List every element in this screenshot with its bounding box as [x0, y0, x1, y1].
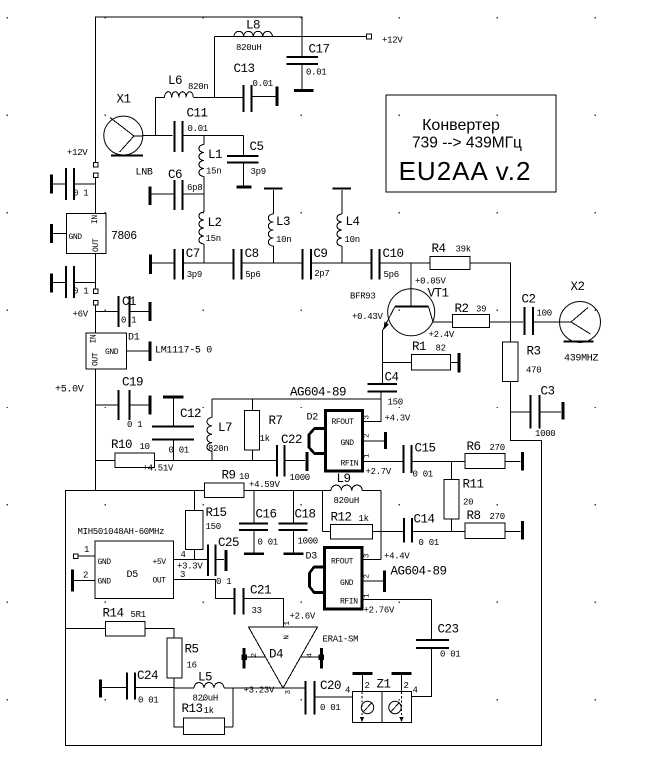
ground D4 pin2 [243, 648, 246, 669]
resistor R9 [205, 483, 245, 498]
svg-text:0.01: 0.01 [188, 124, 208, 134]
svg-text:2: 2 [83, 571, 88, 581]
svg-text:0.01: 0.01 [306, 68, 326, 78]
capacitor C4 [368, 384, 398, 391]
connector X2 [560, 302, 601, 343]
ground C12 top [163, 396, 184, 399]
svg-text:82: 82 [436, 344, 446, 354]
svg-text:1000: 1000 [535, 429, 555, 439]
svg-text:R15: R15 [206, 506, 227, 520]
svg-text:150: 150 [388, 398, 403, 408]
svg-text:+2.7V: +2.7V [366, 467, 392, 477]
svg-text:10n: 10n [345, 235, 360, 245]
svg-text:2: 2 [364, 574, 372, 578]
svg-text:C20: C20 [320, 679, 341, 693]
ground C3 [562, 402, 565, 420]
svg-text:3p9: 3p9 [187, 270, 202, 280]
svg-text:R4: R4 [432, 242, 446, 256]
svg-text:C16: C16 [256, 508, 277, 522]
svg-text:OUT: OUT [92, 238, 101, 252]
svg-text:270: 270 [490, 512, 505, 522]
svg-text:0 01: 0 01 [320, 703, 340, 713]
svg-text:IN: IN [91, 215, 100, 224]
svg-text:7806: 7806 [111, 230, 137, 243]
title box [386, 95, 556, 192]
inductor L6 [156, 96, 165, 98]
svg-text:+12V: +12V [67, 148, 88, 158]
svg-text:GND: GND [98, 578, 112, 587]
svg-text:+0.05V: +0.05V [415, 277, 447, 287]
ground C22 [306, 452, 309, 471]
resistor R13 [174, 688, 184, 727]
capacitor C7 [175, 249, 183, 280]
svg-text:C11: C11 [187, 107, 208, 121]
svg-text:D5: D5 [127, 570, 139, 581]
svg-text:D2: D2 [307, 413, 319, 424]
capacitor C20 [306, 681, 315, 715]
ground C25 [225, 550, 228, 571]
wire R4 to collector node [470, 263, 511, 322]
svg-text:C15: C15 [415, 442, 436, 456]
node pad pair on +12V rail [93, 163, 98, 168]
resistor R11 [451, 462, 453, 480]
svg-text:5p6: 5p6 [245, 270, 260, 280]
svg-text:150: 150 [206, 522, 221, 532]
capacitor C10 [371, 249, 379, 280]
svg-text:+6V: +6V [73, 310, 89, 320]
inductor L9 [323, 490, 332, 492]
svg-text:4: 4 [181, 550, 186, 560]
svg-text:+4.3V: +4.3V [385, 414, 411, 424]
svg-text:5p6: 5p6 [384, 270, 399, 280]
svg-text:C13: C13 [234, 62, 255, 76]
svg-text:RFIN: RFIN [340, 598, 358, 607]
capacitor C16 [253, 491, 255, 523]
svg-text:R14: R14 [103, 607, 124, 621]
capacitor C22 [277, 445, 285, 477]
svg-text:N: N [284, 635, 292, 639]
svg-text:R3: R3 [527, 345, 541, 359]
wire C7-C8 [184, 262, 233, 264]
svg-text:0.01: 0.01 [253, 79, 273, 89]
wire C8-C9 [243, 262, 303, 264]
capacitor C12 [173, 399, 175, 426]
ground C5 [237, 186, 252, 189]
wire D3 pin1 to C23 [362, 599, 432, 601]
ground C13 [276, 87, 279, 107]
ground Z1 pin2 right [392, 672, 412, 675]
svg-text:C7: C7 [186, 247, 200, 261]
capacitor C11 [175, 121, 183, 152]
ground output cap [50, 274, 53, 293]
svg-text:R7: R7 [269, 414, 283, 428]
capacitor C15 [404, 445, 412, 473]
inductor L5 [174, 687, 194, 689]
svg-text:270: 270 [490, 443, 505, 453]
svg-text:4: 4 [413, 686, 418, 696]
svg-text:+4.51V: +4.51V [143, 464, 175, 474]
svg-text:D4: D4 [269, 648, 283, 662]
svg-text:0 01: 0 01 [258, 538, 278, 548]
ground C19 [149, 396, 152, 415]
inductor L3 [268, 214, 273, 246]
resistor R8 [465, 523, 505, 539]
svg-text:C24: C24 [137, 669, 158, 683]
inductor L4 [337, 214, 342, 246]
capacitor C2 [525, 307, 534, 335]
svg-text:GND: GND [98, 558, 112, 567]
svg-text:GND: GND [340, 579, 354, 588]
svg-text:820n: 820n [208, 444, 228, 454]
svg-text:D1: D1 [128, 333, 140, 344]
svg-text:L3: L3 [276, 215, 290, 229]
capacitor C13 [244, 85, 252, 112]
svg-text:3: 3 [180, 570, 185, 580]
svg-text:+3.23V: +3.23V [244, 686, 276, 696]
ground C17 [294, 89, 314, 92]
ground input cap [50, 175, 53, 194]
svg-text:C17: C17 [309, 43, 330, 57]
wire D5 +5V pin to C25 [174, 559, 208, 561]
capacitor C input 0.1 [66, 168, 74, 200]
oscillator D5 MIH501048AH [95, 541, 174, 599]
regulator D1 LM1117 [86, 333, 127, 369]
svg-text:L9: L9 [337, 472, 351, 486]
wire L8 left drop to L6 rail [214, 37, 216, 98]
svg-text:C25: C25 [218, 536, 239, 550]
svg-text:OUT: OUT [92, 352, 101, 366]
inductor L1 [203, 136, 205, 145]
ground 7806 [50, 224, 53, 243]
ground L3 top [264, 187, 283, 189]
svg-text:2p7: 2p7 [314, 269, 329, 279]
svg-text:R10: R10 [111, 438, 132, 452]
svg-text:C6: C6 [168, 168, 182, 182]
svg-text:L6: L6 [168, 74, 182, 88]
svg-text:Конвертер: Конвертер [422, 117, 500, 134]
svg-text:GND: GND [341, 439, 355, 448]
svg-text:C10: C10 [383, 247, 404, 261]
svg-text:D3: D3 [306, 552, 318, 563]
svg-text:X2: X2 [571, 280, 585, 294]
svg-text:+4.59V: +4.59V [249, 480, 281, 490]
wire R2 to C2 [490, 321, 524, 323]
svg-text:0 1: 0 1 [216, 577, 231, 587]
svg-text:BFR93: BFR93 [350, 292, 376, 302]
svg-text:C21: C21 [250, 584, 271, 598]
svg-text:16: 16 [187, 661, 197, 671]
svg-text:439MHZ: 439MHZ [564, 354, 599, 365]
ground D3 pin2 [362, 580, 383, 582]
capacitor C19 [96, 404, 118, 406]
svg-text:VT1: VT1 [428, 287, 449, 301]
ground C7 left [149, 255, 152, 275]
resistor R2 [453, 315, 490, 328]
svg-text:820n: 820n [188, 82, 208, 92]
svg-text:L2: L2 [208, 216, 222, 230]
svg-text:20: 20 [463, 498, 473, 508]
svg-text:L7: L7 [218, 421, 232, 435]
svg-text:RFOUT: RFOUT [331, 558, 354, 567]
svg-text:C18: C18 [295, 508, 316, 522]
svg-text:10: 10 [239, 472, 249, 482]
ground L4 top [333, 187, 352, 189]
capacitor C6 [149, 187, 152, 206]
svg-text:C3: C3 [541, 385, 555, 399]
svg-text:L5: L5 [198, 671, 212, 685]
svg-text:470: 470 [526, 366, 541, 376]
svg-text:2: 2 [404, 681, 409, 691]
svg-text:+5V: +5V [153, 558, 167, 567]
ground D2 pin2 [363, 440, 385, 442]
svg-text:6p8: 6p8 [187, 183, 202, 193]
wire R10 net [96, 460, 116, 462]
svg-text:C19: C19 [122, 376, 143, 390]
ground C24 [99, 680, 102, 698]
resistor R12 [323, 531, 331, 533]
inductor L2 [199, 212, 204, 244]
svg-text:0 01: 0 01 [440, 650, 460, 660]
svg-text:C8: C8 [245, 247, 259, 261]
svg-text:1k: 1k [359, 514, 369, 524]
capacitor C14 [404, 518, 412, 543]
svg-text:+0.43V: +0.43V [352, 312, 384, 322]
wire RFOUT riser [380, 491, 382, 560]
svg-text:1k: 1k [260, 434, 270, 444]
svg-text:C9: C9 [313, 247, 327, 261]
svg-text:L8: L8 [246, 19, 260, 33]
resistor R5 [167, 638, 182, 678]
svg-text:15n: 15n [206, 234, 221, 244]
svg-text:R11: R11 [463, 478, 484, 492]
svg-text:R13: R13 [182, 702, 203, 716]
svg-text:C1: C1 [122, 295, 136, 309]
svg-text:739 --> 439МГц: 739 --> 439МГц [412, 135, 522, 152]
svg-text:R2: R2 [455, 302, 469, 316]
svg-text:+4.4V: +4.4V [384, 552, 410, 562]
svg-text:LM1117-5 0: LM1117-5 0 [155, 346, 212, 357]
svg-text:X1: X1 [117, 93, 131, 107]
svg-text:RFOUT: RFOUT [332, 418, 355, 427]
svg-text:100: 100 [537, 309, 552, 319]
svg-text:10: 10 [140, 442, 150, 452]
svg-text:C4: C4 [385, 371, 399, 385]
svg-text:0 1: 0 1 [121, 316, 136, 326]
svg-text:0 1: 0 1 [73, 287, 88, 297]
svg-text:+2.4V: +2.4V [429, 330, 455, 340]
svg-text:39k: 39k [456, 245, 471, 255]
wire L9 R12 left node [322, 491, 324, 532]
svg-text:LNB: LNB [136, 168, 153, 179]
wire D2 pin3 to C4 [363, 399, 382, 422]
svg-text:AG604-89: AG604-89 [391, 565, 447, 579]
svg-text:10n: 10n [276, 235, 291, 245]
capacitor C21 [235, 588, 244, 615]
svg-text:39: 39 [476, 305, 486, 315]
svg-text:4: 4 [345, 686, 350, 696]
ground R8 [521, 521, 524, 540]
svg-text:GND: GND [105, 348, 119, 357]
wire collector to R2 [433, 321, 453, 323]
resistor R15 [194, 491, 196, 511]
svg-text:2: 2 [365, 681, 370, 691]
transistor VT1 [410, 263, 412, 307]
svg-text:0 1: 0 1 [73, 189, 88, 199]
capacitor C23 [431, 600, 433, 640]
svg-text:L4: L4 [346, 215, 360, 229]
svg-text:0 01: 0 01 [138, 696, 158, 706]
capacitor C8 [234, 249, 242, 280]
svg-text:1: 1 [84, 545, 89, 555]
svg-text:0 01: 0 01 [413, 470, 433, 480]
capacitor C18 [293, 491, 295, 523]
svg-text:2: 2 [364, 434, 372, 438]
svg-text:33: 33 [252, 606, 262, 616]
svg-text:Z1: Z1 [377, 678, 391, 692]
ground R1 [458, 353, 461, 373]
wire D2 pin1 to C15 [363, 461, 403, 463]
svg-text:+2.6V: +2.6V [290, 612, 316, 622]
wire +5V rail down [95, 369, 97, 491]
node pad pair +6V [93, 289, 98, 294]
wire C2 to X2 [534, 321, 560, 323]
svg-text:0 01: 0 01 [419, 538, 439, 548]
svg-text:820uH: 820uH [334, 496, 360, 506]
svg-text:15n: 15n [206, 167, 221, 177]
resistor R6 [465, 454, 505, 469]
ground C1 [149, 302, 152, 321]
resistor R14 [66, 628, 106, 630]
capacitor C output 0.1 [66, 266, 74, 298]
wire 7806 out [95, 254, 97, 290]
svg-text:+2.76V: +2.76V [364, 606, 396, 616]
wire L5 to D4 out to C20 [233, 687, 305, 689]
svg-text:1000: 1000 [290, 473, 310, 483]
svg-text:GND: GND [69, 233, 83, 242]
inductor L8 [234, 31, 272, 36]
wire D5 out to C21 [174, 580, 234, 599]
svg-text:L1: L1 [208, 148, 222, 162]
svg-text:R9: R9 [222, 469, 236, 483]
wire X1 feed [143, 135, 173, 137]
svg-text:C5: C5 [250, 140, 264, 154]
capacitor C5 [243, 136, 245, 155]
svg-text:3p9: 3p9 [251, 167, 266, 177]
capacitor C9 [303, 249, 311, 280]
svg-text:C12: C12 [180, 407, 201, 421]
ground R6 [521, 452, 524, 471]
svg-text:1000: 1000 [298, 537, 318, 547]
svg-text:820uH: 820uH [236, 43, 262, 53]
wire +12V top frame [96, 17, 303, 163]
svg-text:0 01: 0 01 [169, 446, 189, 456]
svg-text:0 1: 0 1 [127, 420, 142, 430]
wire C10 to R4 [381, 262, 430, 264]
svg-text:C14: C14 [414, 513, 435, 527]
wire C9-C10 [312, 262, 371, 264]
svg-text:MIH501048AH-60MHz: MIH501048AH-60MHz [78, 527, 165, 537]
svg-text:R5: R5 [185, 643, 199, 657]
wire D3 pin3 riser join [362, 559, 381, 561]
ground C18 [284, 553, 304, 555]
ground Z1 pin2 left [353, 672, 373, 675]
resistor R7 [252, 399, 254, 411]
svg-text:1k: 1k [204, 706, 214, 716]
svg-text:C22: C22 [281, 433, 302, 447]
svg-text:R1: R1 [412, 340, 426, 354]
svg-text:+12V: +12V [382, 36, 403, 46]
node D5 pin1 pad [74, 554, 79, 559]
regulator 7806 [67, 214, 107, 254]
amplifier D4 ERA1-SM [249, 627, 318, 688]
svg-text:EU2AA v.2: EU2AA v.2 [399, 156, 532, 186]
wire C11 to C5 corner [184, 135, 244, 137]
wire L6 left drop to X1 feed [155, 97, 157, 135]
svg-text:R6: R6 [467, 440, 481, 454]
amplifier D2 AG604-89 [326, 411, 363, 472]
connector X1 [104, 116, 143, 155]
wire +5V loop [66, 412, 542, 746]
resistor R10 [115, 453, 155, 468]
svg-text:C2: C2 [522, 293, 536, 307]
resistor R4 [430, 256, 470, 269]
ground C16 [244, 553, 264, 555]
svg-text:5R1: 5R1 [131, 610, 146, 620]
svg-text:R8: R8 [467, 509, 481, 523]
svg-text:C23: C23 [438, 623, 459, 637]
svg-text:+5.0V: +5.0V [55, 385, 84, 396]
capacitor C3 [511, 411, 530, 413]
capacitor C25 [208, 545, 216, 577]
svg-text:ERA1-SM: ERA1-SM [323, 635, 359, 645]
svg-text:IN: IN [90, 334, 99, 343]
node +12V pad [367, 34, 372, 39]
wire R9 feed [96, 490, 205, 492]
amplifier D3 AG604-89 [325, 548, 363, 610]
svg-text:R12: R12 [331, 511, 352, 525]
wire L7 R7 top net [212, 398, 381, 400]
resistor R3 [510, 322, 512, 342]
svg-text:OUT: OUT [153, 577, 167, 586]
capacitor C1 [96, 311, 118, 313]
svg-text:AG604-89: AG604-89 [290, 386, 346, 400]
resistor R1 [383, 362, 412, 364]
inductor L7 [211, 399, 213, 418]
ground D4 pin4 [301, 656, 320, 658]
ground D5 pin2 [74, 580, 95, 582]
filter Z1 [353, 692, 412, 723]
capacitor C17 [301, 37, 303, 57]
wire +12V rail [215, 36, 367, 38]
capacitor C24 [102, 687, 126, 689]
svg-text:RFIN: RFIN [341, 460, 359, 469]
ground D1 [127, 350, 149, 352]
